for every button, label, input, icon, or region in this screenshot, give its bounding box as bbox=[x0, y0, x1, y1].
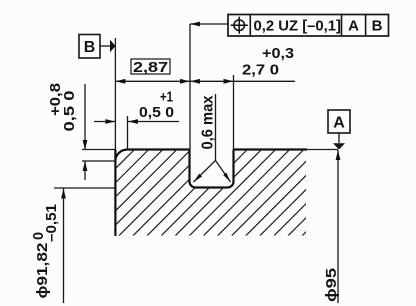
dimension dia91,82 leader line bbox=[63, 189, 65, 304]
dimension 2,7 line with tail bbox=[190, 80, 295, 82]
extension line: top surface level, left of part bbox=[82, 149, 115, 151]
svg-text:0,2 UZ [–0,1]: 0,2 UZ [–0,1] bbox=[254, 18, 342, 35]
svg-text:ϕ91,82: ϕ91,82 bbox=[34, 243, 51, 299]
extension line: groove root level dia91,82 bbox=[54, 187, 115, 189]
extension line: top surface level, right toward dia95 arrow bbox=[307, 149, 338, 151]
svg-text:0,5 0: 0,5 0 bbox=[139, 105, 174, 121]
svg-text:+1: +1 bbox=[160, 90, 173, 106]
svg-text:+0,8: +0,8 bbox=[48, 83, 64, 116]
part contour: groove (slot) walls and bottom with corner radii bbox=[190, 150, 234, 188]
part contour: rounded corner radius top-left bbox=[115, 150, 127, 162]
leader 0,6 max with two arrows to groove corners bbox=[194, 94, 231, 182]
svg-text:B: B bbox=[372, 18, 383, 35]
datum B leader and filled triangle bbox=[100, 45, 111, 47]
datum B box bbox=[79, 35, 100, 59]
feature control frame bbox=[228, 15, 389, 37]
datum A leader and filled triangle bbox=[338, 133, 340, 143]
position symbol bbox=[231, 17, 248, 34]
svg-text:A: A bbox=[348, 18, 359, 35]
datum A box bbox=[328, 110, 350, 133]
extension line: 0,5 below top surface (left) bbox=[82, 160, 115, 162]
extension line: groove right wall vertical bbox=[233, 75, 235, 150]
svg-text:+0,3: +0,3 bbox=[262, 46, 294, 62]
svg-text:2,87: 2,87 bbox=[133, 60, 168, 76]
dimension dia95 leader line bbox=[337, 150, 339, 303]
svg-text:B: B bbox=[84, 39, 96, 56]
svg-text:0: 0 bbox=[31, 232, 47, 240]
part contour: top surface left of groove bbox=[128, 148, 190, 150]
dimension 2,87 line bbox=[115, 80, 190, 82]
part contour: top surface right of groove bbox=[234, 148, 308, 150]
extension line: left face plane (datum B) vertical bbox=[114, 38, 116, 150]
svg-text:A: A bbox=[333, 114, 345, 131]
svg-text:0,6 max: 0,6 max bbox=[200, 95, 217, 149]
extension line: groove left wall vertical up to leader bbox=[189, 24, 191, 150]
extension line: tick for 0,5 horizontal bbox=[127, 116, 129, 150]
svg-text:0,5 0: 0,5 0 bbox=[62, 91, 78, 132]
svg-text:ϕ95: ϕ95 bbox=[323, 268, 340, 302]
dimension 0,5 vertical (corner radius height) bbox=[84, 84, 86, 180]
svg-text:2,7 0: 2,7 0 bbox=[242, 63, 279, 79]
leader from feature control frame bbox=[190, 23, 228, 25]
basic dimension box 2,87 bbox=[131, 59, 170, 74]
part contour: left edge of section bbox=[114, 150, 116, 237]
dimension 0,5 horizontal (corner radius width) bbox=[94, 121, 179, 123]
